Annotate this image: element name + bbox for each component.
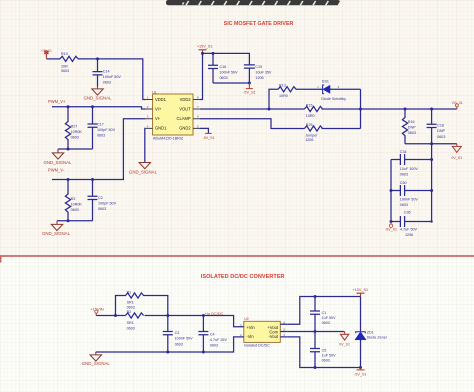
power port +15V_S1 (above U1) <box>197 44 213 53</box>
svg-text:100nF 50V: 100nF 50V <box>220 71 239 75</box>
svg-text:0603: 0603 <box>322 321 330 325</box>
capacitor C5 <box>310 332 320 368</box>
svg-text:C36: C36 <box>404 211 411 215</box>
svg-text:GND2: GND2 <box>179 126 191 131</box>
junction R16 top <box>404 108 407 111</box>
svg-text:U2: U2 <box>244 317 249 321</box>
junction C16 top <box>212 52 215 55</box>
svg-text:10uF 35V: 10uF 35V <box>255 71 272 75</box>
svg-text:0603: 0603 <box>408 131 416 135</box>
power port -5V_S1 (at GND2) <box>203 133 215 140</box>
wire +Vout to top rail <box>287 297 360 325</box>
svg-text:C4: C4 <box>210 332 215 336</box>
ground GND_SIGNAL under R3 <box>51 221 62 231</box>
junction C3 bottom <box>166 351 169 354</box>
svg-text:C18: C18 <box>437 124 444 128</box>
capacitor C15 <box>244 65 255 83</box>
svg-text:R2: R2 <box>127 310 132 314</box>
svg-text:-5V_S1: -5V_S1 <box>243 91 256 95</box>
svg-text:0603: 0603 <box>175 342 183 346</box>
dark toolbar tabs <box>166 0 341 5</box>
power port -5V_S1 (under C15) <box>243 83 256 95</box>
svg-text:Jumper: Jumper <box>305 133 318 137</box>
wire VDD2 riser <box>200 53 203 99</box>
svg-text:VOUT: VOUT <box>179 106 191 111</box>
diode ZD1 zener <box>355 331 388 340</box>
junction VDD2 node <box>201 52 204 55</box>
capacitor C1 <box>310 297 320 332</box>
wire zener rail bottom <box>360 340 362 368</box>
capacitor C14 <box>93 59 103 87</box>
wire decoupling top <box>203 53 250 64</box>
wire R16 C18 bottom to 0V <box>405 143 457 145</box>
svg-text:DS1: DS1 <box>322 79 329 83</box>
wire -Vout to bottom rail <box>287 337 360 368</box>
resistor R1 (top branch) <box>116 293 168 316</box>
capacitor C3 <box>163 316 173 353</box>
svg-text:+15V_S1: +15V_S1 <box>197 44 213 48</box>
wire gnd rail PWM_V- <box>57 220 93 222</box>
resistor R10 <box>60 56 78 61</box>
wire Com to 0V <box>287 331 344 333</box>
svg-text:10R0: 10R0 <box>306 114 315 118</box>
svg-text:0603: 0603 <box>61 69 69 73</box>
sheet background bottom <box>0 256 474 392</box>
svg-text:+15V_S1: +15V_S1 <box>352 288 368 292</box>
ground GND_SIGNAL under U1 <box>139 163 150 169</box>
svg-text:R1: R1 <box>127 290 132 294</box>
svg-text:100pF 50V: 100pF 50V <box>98 202 117 206</box>
ground GND_SIGNAL under R27 <box>52 149 63 159</box>
wire PWM_V- to VI- <box>52 119 146 180</box>
svg-text:C2: C2 <box>98 196 103 200</box>
svg-text:R13: R13 <box>279 83 286 87</box>
red divider line <box>0 255 474 257</box>
junction C36 left <box>390 220 393 223</box>
junction C4 top <box>202 314 205 317</box>
svg-text:GND_SIGNAL: GND_SIGNAL <box>43 160 72 165</box>
svg-text:+Vin: +Vin <box>246 325 255 330</box>
svg-text:VDD2: VDD2 <box>180 97 192 102</box>
svg-text:SIC MOSFET GATE DRIVER: SIC MOSFET GATE DRIVER <box>224 21 294 27</box>
svg-text:Diode Zener: Diode Zener <box>367 335 388 339</box>
svg-text:+In DC/DC: +In DC/DC <box>205 312 224 316</box>
capacitor C17 <box>88 107 98 149</box>
op-amp U1 ADuM4120 gate driver <box>146 90 200 140</box>
svg-text:C34: C34 <box>400 150 407 154</box>
wire input ground rail <box>96 337 237 352</box>
ground GND_SIGNAL (bottom sheet) <box>90 352 101 361</box>
svg-text:4.7uF 25V: 4.7uF 25V <box>210 338 228 342</box>
junction C5 bottom <box>314 366 317 369</box>
svg-text:0603: 0603 <box>437 135 445 139</box>
junction C3 top <box>166 314 169 317</box>
wire gate output <box>361 108 457 110</box>
svg-text:C14: C14 <box>103 69 110 73</box>
svg-text:R10: R10 <box>61 52 68 56</box>
junction R3 top <box>67 178 70 181</box>
ground 0V_S1 (bottom sheet) <box>339 332 350 347</box>
wire zener rail top <box>360 297 362 332</box>
wire input main <box>96 315 125 317</box>
svg-text:R25: R25 <box>306 123 313 127</box>
svg-text:0603: 0603 <box>322 359 330 363</box>
capacitor C18 <box>427 109 437 144</box>
svg-text:1uF 50V: 1uF 50V <box>322 316 336 320</box>
svg-text:10uF 100V: 10uF 100V <box>400 167 419 171</box>
wire R13 to DS1 <box>296 88 323 90</box>
svg-text:PWM_V+: PWM_V+ <box>48 99 66 104</box>
svg-text:VI+: VI+ <box>155 106 162 111</box>
svg-text:CLAMP: CLAMP <box>176 116 190 121</box>
svg-text:10R0K: 10R0K <box>71 203 83 207</box>
svg-text:0603: 0603 <box>97 134 105 138</box>
IC U2 isolated DC/DC module <box>237 317 287 348</box>
svg-text:10R0: 10R0 <box>279 94 288 98</box>
resistor R27 <box>65 107 70 149</box>
svg-text:0603: 0603 <box>98 207 106 211</box>
junction C18 top <box>430 108 433 111</box>
resistor R25 <box>305 126 323 131</box>
wire right node vertical <box>360 89 362 128</box>
svg-text:C17: C17 <box>97 122 104 126</box>
wire PWM_V+ to VI+ <box>52 107 146 109</box>
junction C50 left <box>390 189 393 192</box>
svg-text:0603: 0603 <box>71 136 79 140</box>
wire right cap rail <box>431 144 433 222</box>
svg-text:GND_SIGNAL: GND_SIGNAL <box>83 95 112 100</box>
wire R2 to module <box>145 316 237 327</box>
svg-text:DNP: DNP <box>437 129 445 133</box>
svg-text:0603: 0603 <box>400 172 408 176</box>
resistor R2 (in line) <box>126 313 144 318</box>
sheet background top <box>0 0 474 256</box>
power port -5V_S1 (left of C36) <box>385 222 397 232</box>
wire R15 to node <box>322 108 361 110</box>
svg-text:ISOLATED DC/DC CONVERTER: ISOLATED DC/DC CONVERTER <box>201 274 285 280</box>
resistor R13 <box>278 87 296 92</box>
power port -5V_S1 (bottom sheet) <box>354 368 367 377</box>
svg-text:+15V_S1: +15V_S1 <box>41 49 53 53</box>
svg-text:0603: 0603 <box>127 326 135 330</box>
ground 0V_S1 (top right) <box>451 144 462 160</box>
svg-text:1206: 1206 <box>255 76 263 80</box>
resistor R16 <box>402 109 407 144</box>
svg-text:SR1: SR1 <box>127 321 134 325</box>
junction C17 top <box>91 105 94 108</box>
junction C34 right <box>430 158 433 161</box>
svg-text:C16: C16 <box>220 65 227 69</box>
junction R27 bottom <box>67 148 70 151</box>
power port +15VIN <box>90 306 104 315</box>
svg-text:GND1: GND1 <box>155 126 167 131</box>
wire decoupling bottom <box>213 82 249 84</box>
svg-text:Isolated DC/DC: Isolated DC/DC <box>244 344 270 348</box>
junction R1 left <box>114 314 117 317</box>
svg-text:-5V_S1: -5V_S1 <box>354 372 367 376</box>
svg-text:R27: R27 <box>71 124 78 128</box>
svg-text:100nF 50V: 100nF 50V <box>103 75 122 79</box>
wire GND2 to -5V_S1 <box>200 128 208 133</box>
svg-text:R3: R3 <box>71 197 76 201</box>
svg-text:0603: 0603 <box>210 344 218 348</box>
svg-text:-5V_S1: -5V_S1 <box>203 136 215 140</box>
svg-text:GND_SIGNAL: GND_SIGNAL <box>129 170 158 175</box>
svg-text:-Vout: -Vout <box>268 334 278 339</box>
svg-text:C15: C15 <box>255 65 262 69</box>
svg-text:-5V_S1: -5V_S1 <box>385 228 397 232</box>
wire GND1 to ground <box>145 128 146 162</box>
svg-text:10R: 10R <box>61 65 68 69</box>
capacitor C34 <box>391 154 432 165</box>
junction C15 bottom <box>248 82 251 85</box>
svg-text:1206: 1206 <box>305 138 313 142</box>
power port +15V_S1 (top-left) <box>41 49 53 59</box>
svg-text:GND_SIGNAL: GND_SIGNAL <box>42 231 71 236</box>
svg-text:R16: R16 <box>408 120 415 124</box>
svg-text:ADuM4120-1BRIZ: ADuM4120-1BRIZ <box>153 136 184 140</box>
svg-text:C5: C5 <box>322 348 327 352</box>
svg-text:1206: 1206 <box>405 233 413 237</box>
wire left cap rail <box>390 160 392 222</box>
svg-text:-Vin: -Vin <box>246 334 254 339</box>
resistor R3 <box>65 180 70 221</box>
svg-text:VG_01: VG_01 <box>452 101 463 105</box>
diode DS1 schottky <box>317 79 346 101</box>
svg-text:SR1: SR1 <box>127 300 134 304</box>
svg-text:100pF 50V: 100pF 50V <box>97 128 116 132</box>
wire port to R10 <box>46 58 60 60</box>
svg-text:VI-: VI- <box>155 116 161 121</box>
wire DS1 to node <box>330 88 361 90</box>
capacitor C2 <box>88 180 98 221</box>
svg-text:GND_SIGNAL: GND_SIGNAL <box>82 361 111 366</box>
svg-text:C1: C1 <box>322 311 327 315</box>
svg-text:0603: 0603 <box>103 81 111 85</box>
capacitor C50 <box>391 185 432 196</box>
svg-text:100nF 50V: 100nF 50V <box>400 197 419 201</box>
svg-text:Diode Schottky: Diode Schottky <box>321 97 346 101</box>
svg-text:4.7uF 50V: 4.7uF 50V <box>400 227 418 231</box>
svg-text:VDD1: VDD1 <box>155 97 167 102</box>
capacitor C4 <box>198 316 208 353</box>
svg-text:ZD1: ZD1 <box>367 331 374 335</box>
svg-text:DNP: DNP <box>408 126 416 130</box>
wire branch riser <box>269 89 278 109</box>
wire gnd rail PWM_V+ <box>58 148 93 150</box>
svg-text:100nF 50V: 100nF 50V <box>175 337 194 341</box>
junction node C14 <box>96 57 99 60</box>
power port VG_01 <box>452 101 463 109</box>
junction C2 top <box>91 178 94 181</box>
junction C36 right <box>430 220 432 222</box>
junction C4 bottom <box>202 351 205 354</box>
power port +15V_S1 (bottom sheet) <box>352 288 368 297</box>
wire VOUT node <box>200 108 305 110</box>
wire CLAMP <box>200 119 305 129</box>
svg-text:R15: R15 <box>306 103 313 107</box>
svg-text:0603: 0603 <box>400 203 408 207</box>
svg-text:1uF 50V: 1uF 50V <box>322 354 336 358</box>
capacitor C36 <box>391 216 432 227</box>
junction bottom rail <box>359 366 362 369</box>
svg-text:0603: 0603 <box>71 208 79 212</box>
junction right node <box>359 108 362 111</box>
svg-text:C50: C50 <box>400 181 407 185</box>
junction C18 bottom <box>430 142 433 145</box>
svg-text:0603: 0603 <box>127 306 135 310</box>
svg-text:0603: 0603 <box>220 76 228 80</box>
svg-text:PWM_V-: PWM_V- <box>48 168 65 173</box>
wire R25 to node <box>322 128 361 130</box>
junction VOUT branch <box>268 108 271 111</box>
junction R27 top <box>67 105 70 108</box>
junction C1 top <box>314 295 317 298</box>
capacitor C16 <box>208 53 218 83</box>
junction R3 bottom <box>67 219 70 222</box>
resistor R15 <box>305 106 323 111</box>
svg-text:C3: C3 <box>175 331 180 335</box>
svg-text:10R0K: 10R0K <box>71 130 83 134</box>
svg-text:0V_S1: 0V_S1 <box>451 156 462 160</box>
junction C50 right <box>430 189 433 192</box>
svg-text:0V_S1: 0V_S1 <box>339 342 350 346</box>
wire R10 to VDD1 <box>78 59 146 100</box>
ground GND_SIGNAL under C14 <box>92 87 103 96</box>
junction Com C1 C5 <box>314 330 317 333</box>
